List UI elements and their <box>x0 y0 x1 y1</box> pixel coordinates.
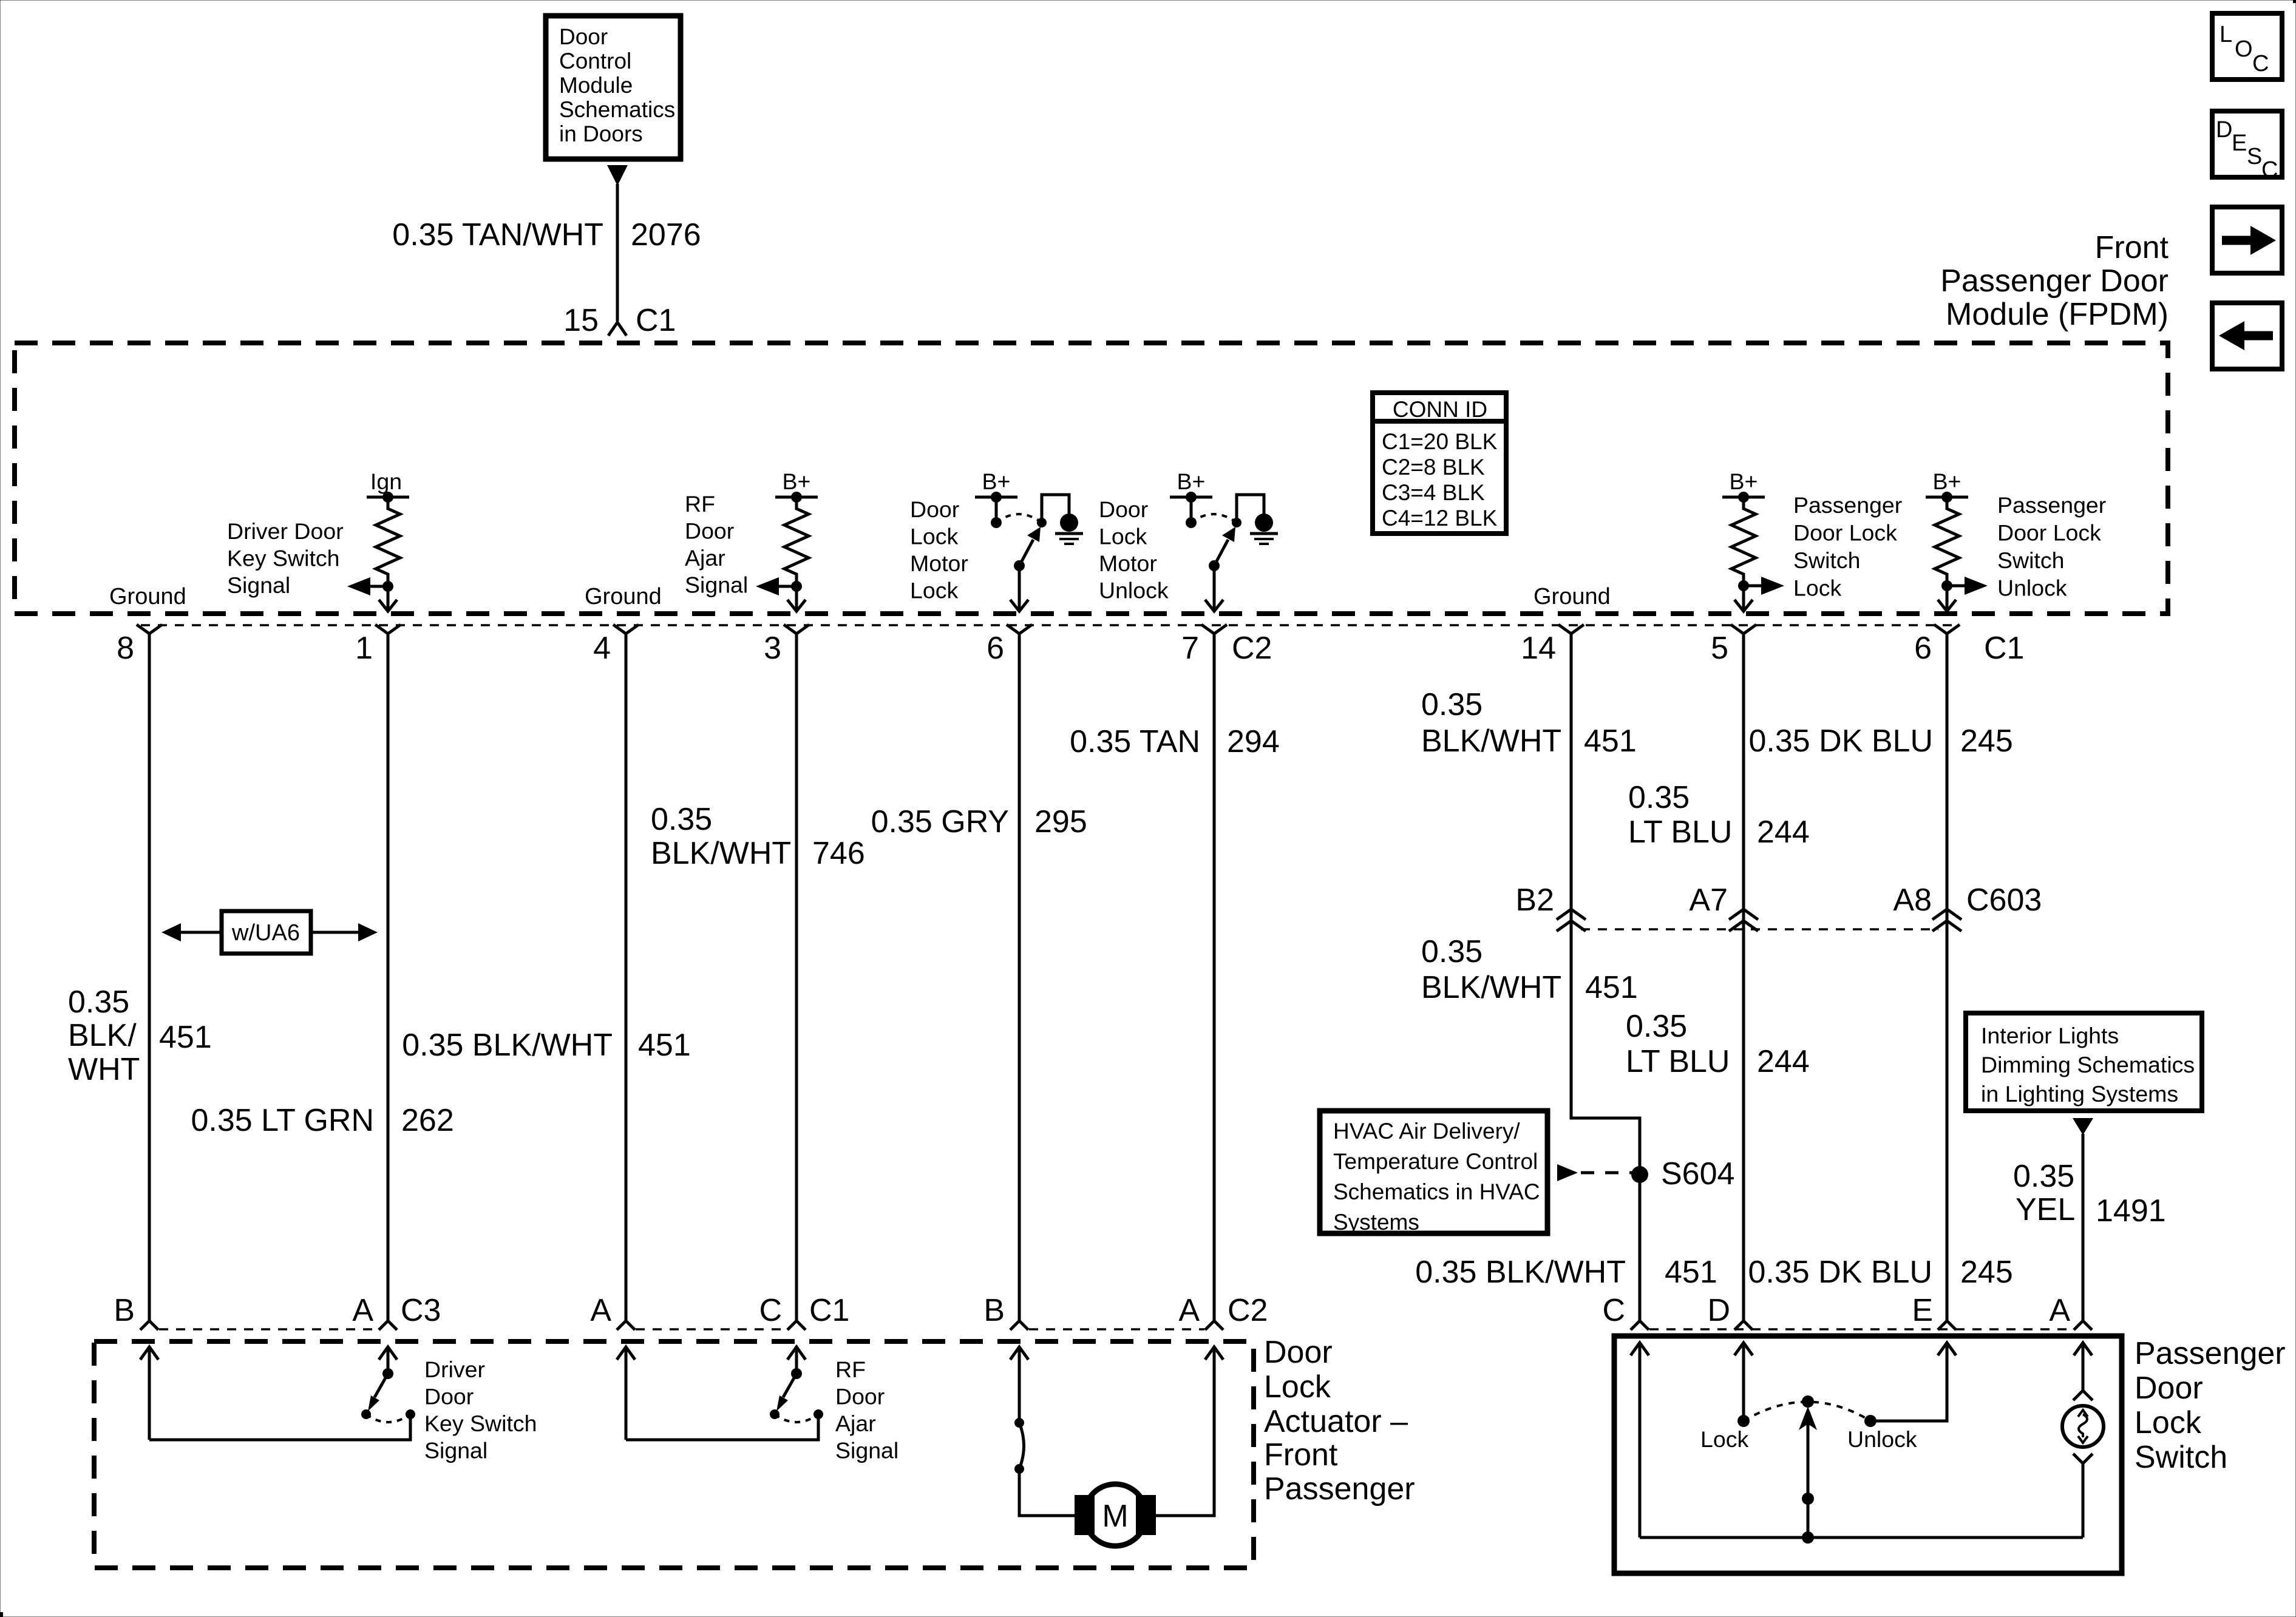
connector C603 dashed line <box>1581 928 1938 931</box>
connector Y at pin 4 <box>613 625 639 634</box>
svg-text:C: C <box>2261 157 2278 183</box>
left-arrow button box <box>2212 303 2282 369</box>
wire: R1 to pin 1 with down arrow <box>379 586 397 611</box>
wire arrow into actuator pin A C2 <box>1205 1347 1223 1360</box>
wire: ground contact to chassis ground (unlock driver) <box>1237 495 1264 523</box>
svg-text:C: C <box>1602 1293 1625 1328</box>
signal tap arrow (unlock switch signal) <box>1947 577 1988 595</box>
switch S3 blade with arrowhead <box>368 1374 388 1411</box>
svg-text:DoorLockActuator –FrontPasseng: DoorLockActuator –FrontPassenger <box>1264 1335 1415 1507</box>
wire: pin 3 circuit 746 down to actuator pin C C1 <box>795 634 798 1321</box>
svg-text:244: 244 <box>1757 815 1810 850</box>
wire: lamp to rail <box>2082 1463 2085 1537</box>
svg-text:1: 1 <box>355 631 373 666</box>
svg-text:E: E <box>1912 1293 1933 1328</box>
switch S2 blade with arrowhead <box>1214 527 1235 566</box>
svg-text:0.35 TAN: 0.35 TAN <box>1070 724 1200 759</box>
svg-text:0.35BLK/WHT: 0.35BLK/WHT <box>68 985 140 1087</box>
page corner mark bottom-left <box>0 1612 3 1617</box>
connector chevron above lamp <box>2073 1391 2093 1400</box>
svg-text:15: 15 <box>563 303 599 338</box>
svg-text:E: E <box>2232 131 2247 156</box>
wire: pin 1 circuit 262 down to actuator pin A C3 <box>387 634 390 1321</box>
switch S1 blade with arrowhead <box>1019 527 1041 566</box>
signal tap arrow (RF door ajar signal) <box>756 577 796 595</box>
connector Y at pin 6 C2 <box>1007 625 1032 634</box>
B+ supply bar (lock driver) <box>975 496 1017 499</box>
dashed throw arc (S4) <box>775 1414 818 1422</box>
svg-text:6: 6 <box>1914 631 1932 666</box>
wire: circuit 1491 down to switch pin A <box>2082 1134 2085 1321</box>
svg-text:8: 8 <box>117 631 134 666</box>
junction dot on rail <box>1802 1531 1814 1544</box>
B+ supply bar (unlock switch) <box>1926 496 1968 499</box>
svg-text:D: D <box>2216 117 2232 143</box>
illumination lamp <box>2062 1406 2104 1447</box>
svg-text:B+: B+ <box>982 469 1011 494</box>
box: Interior Lights Dimming reference <box>1966 1013 2202 1111</box>
junction dot below R1 <box>382 581 393 592</box>
connector chevron at actuator pin A C3 <box>379 1321 397 1330</box>
contact dot ground side (lock driver) <box>1037 518 1047 527</box>
svg-text:PassengerDoor LockSwitchUnlock: PassengerDoor LockSwitchUnlock <box>1997 492 2106 601</box>
wire arrow into switch pin A <box>2074 1343 2092 1390</box>
svg-text:1491: 1491 <box>2096 1193 2166 1229</box>
svg-text:244: 244 <box>1757 1044 1810 1079</box>
connector chevron at pin 15 <box>608 322 627 336</box>
arrow from HVAC box <box>1557 1164 1578 1181</box>
svg-text:451: 451 <box>638 1028 691 1063</box>
wire: Unlock contact to pin E <box>1870 1343 1947 1421</box>
connector Y at pin 6 C1 <box>1934 625 1960 634</box>
rocker center dot <box>1802 1395 1814 1408</box>
wire: pin 6 circuit 245 down through C603 A8 to switch pin E <box>1946 634 1949 1321</box>
switch common pole arrow <box>1799 1406 1817 1499</box>
motor switch contact dot upper <box>1014 1418 1024 1428</box>
svg-text:0.35 BLK/WHT: 0.35 BLK/WHT <box>1415 1255 1626 1290</box>
wire arrow into switch pin C <box>1631 1343 1649 1537</box>
svg-text:Unlock: Unlock <box>1847 1426 1917 1452</box>
svg-text:0.35 DK BLU: 0.35 DK BLU <box>1749 724 1934 759</box>
connector chevrons at A7 <box>1729 909 1758 931</box>
switch S1 pivot dot (lock driver) <box>1014 560 1025 571</box>
connector dashed line (actuator C1) <box>636 1328 787 1331</box>
CONN ID table box <box>1373 393 1506 534</box>
connector chevron at switch pin D <box>1734 1321 1753 1330</box>
svg-text:451: 451 <box>1665 1255 1717 1290</box>
arrow: from reference box down <box>607 165 628 186</box>
svg-text:L: L <box>2220 22 2232 47</box>
svg-text:PassengerDoor LockSwitchLock: PassengerDoor LockSwitchLock <box>1793 492 1902 601</box>
switch S4 pivot dot (RF door ajar switch) <box>791 1368 802 1379</box>
wire: pin 4 circuit 451 down to actuator pin A <box>625 634 628 1321</box>
connector chevron at switch pin E <box>1938 1321 1956 1330</box>
wire arrow into switch pin D <box>1734 1343 1753 1421</box>
box: HVAC Air Delivery reference <box>1320 1111 1547 1233</box>
junction dot on B+ bar (unlock switch) <box>1941 492 1952 503</box>
svg-text:3: 3 <box>764 631 781 666</box>
contact dot right (S3) <box>406 1409 415 1419</box>
junction dot on Ign bar <box>382 492 393 503</box>
connector Y at pin 14 <box>1558 625 1584 634</box>
svg-text:Ign: Ign <box>370 469 402 494</box>
connector Y at pin 8 <box>137 625 162 634</box>
contact dot ground side (unlock driver) <box>1232 518 1241 527</box>
contact dot B+ side (lock driver) <box>991 517 1002 528</box>
switch S2 pivot dot (unlock driver) <box>1209 560 1220 571</box>
FPDM module dashed box <box>15 343 2168 614</box>
connector dashed line (actuator C3) <box>159 1328 378 1331</box>
svg-text:0.35LT BLU: 0.35LT BLU <box>1626 1009 1730 1079</box>
dashed throw arc (lock driver switch) <box>996 514 1042 523</box>
wire: pin 6 circuit 295 down to actuator pin B C2 <box>1018 634 1021 1321</box>
connector chevron at actuator pin B C2 <box>1010 1321 1028 1330</box>
connector chevron below lamp <box>2073 1454 2093 1463</box>
wire: pin 8 circuit 451 down to actuator pin B <box>148 634 151 1321</box>
ground symbol (lock driver) <box>1055 514 1083 544</box>
connector chevron at actuator pin A C1 <box>617 1321 635 1330</box>
wire: pin 7 circuit 294 down to actuator pin A C2 <box>1213 634 1216 1321</box>
junction dot on pole <box>1802 1493 1814 1505</box>
svg-text:7: 7 <box>1181 631 1199 666</box>
wire: actuator key switch return rail <box>149 1415 410 1440</box>
wire: pole to rail <box>1807 1499 1810 1537</box>
svg-text:0.35BLK/WHT: 0.35BLK/WHT <box>1421 687 1561 759</box>
stub wire B+ to contact <box>995 497 998 523</box>
wire: pin 5 circuit 244 down through C603 A7 to switch pin D <box>1742 634 1745 1321</box>
connector Y at pin 1 <box>375 625 401 634</box>
svg-text:DoorLockMotorLock: DoorLockMotorLock <box>910 497 968 603</box>
svg-text:0.35 BLK/WHT: 0.35 BLK/WHT <box>402 1028 613 1063</box>
signal tap arrow (driver door key switch signal) <box>347 577 388 595</box>
svg-text:Ground: Ground <box>1533 584 1611 609</box>
svg-text:Ground: Ground <box>109 584 186 609</box>
wire arrow into actuator pin B C2 <box>1010 1347 1028 1423</box>
junction dot on B+ bar (unlock driver) <box>1186 492 1197 503</box>
svg-text:C3: C3 <box>401 1293 441 1328</box>
svg-text:CONN ID: CONN ID <box>1393 397 1487 422</box>
wire arrow into switch pin E <box>1938 1343 1956 1355</box>
svg-text:C1: C1 <box>809 1293 849 1328</box>
svg-text:A7: A7 <box>1689 883 1728 918</box>
junction dot on B+ bar (RF) <box>791 492 802 503</box>
svg-text:Interior LightsDimming Schemat: Interior LightsDimming Schematicsin Ligh… <box>1981 1023 2195 1107</box>
svg-text:A: A <box>1178 1293 1200 1328</box>
w/UA6 right arrow <box>311 923 378 941</box>
svg-text:B2: B2 <box>1515 883 1554 918</box>
wire: pin 14 circuit 451 down through C603 B2 then jog to S604 <box>1571 634 1640 1321</box>
switch S4 blade with arrowhead <box>776 1374 796 1411</box>
rocker dashed arc <box>1744 1402 1870 1422</box>
connector Y at pin 5 <box>1731 625 1756 634</box>
svg-text:5: 5 <box>1711 631 1728 666</box>
connector Y at pin 3 <box>784 625 809 634</box>
svg-text:B+: B+ <box>1933 469 1961 494</box>
svg-text:0.35 LT GRN: 0.35 LT GRN <box>191 1103 374 1138</box>
svg-text:DriverDoorKey SwitchSignal: DriverDoorKey SwitchSignal <box>424 1357 537 1463</box>
Door Lock Actuator dashed box <box>94 1341 1254 1568</box>
w/UA6 option box <box>222 911 311 954</box>
svg-text:0.35BLK/WHT: 0.35BLK/WHT <box>651 802 791 871</box>
resistor R2 (RF door ajar pull-up) <box>784 497 809 586</box>
svg-text:245: 245 <box>1960 1255 2013 1290</box>
splice S604 dot <box>1631 1166 1648 1183</box>
svg-text:A8: A8 <box>1893 883 1932 918</box>
contact dot left (S4) <box>770 1409 779 1419</box>
svg-text:PassengerDoorLockSwitch: PassengerDoorLockSwitch <box>2135 1336 2286 1475</box>
contact dot Unlock <box>1864 1415 1877 1427</box>
svg-text:C603: C603 <box>1966 883 2042 918</box>
contact dot Lock <box>1737 1415 1750 1427</box>
svg-text:0.35 GRY: 0.35 GRY <box>871 804 1009 839</box>
B+ supply bar (RF) <box>775 496 818 499</box>
svg-text:RFDoorAjarSignal: RFDoorAjarSignal <box>835 1357 898 1463</box>
Ign supply bar <box>367 496 409 499</box>
svg-text:A: A <box>352 1293 373 1328</box>
svg-text:245: 245 <box>1960 724 2013 759</box>
svg-text:0.35LT BLU: 0.35LT BLU <box>1628 780 1733 850</box>
svg-text:C1=20 BLKC2=8 BLKC3=4 BLKC4=12: C1=20 BLKC2=8 BLKC3=4 BLKC4=12 BLK <box>1382 429 1498 531</box>
svg-text:0.35BLK/WHT: 0.35BLK/WHT <box>1421 934 1561 1005</box>
junction dot on B+ bar (lock switch) <box>1738 492 1749 503</box>
svg-text:M: M <box>1102 1499 1128 1534</box>
resistor R4 (passenger door lock switch unlock pull-up) <box>1935 497 1959 586</box>
svg-text:295: 295 <box>1034 804 1087 839</box>
svg-text:C1: C1 <box>1984 631 2024 666</box>
switch S3 pivot dot (driver door key switch) <box>382 1368 393 1379</box>
wire: actuator ajar switch return rail <box>626 1415 818 1440</box>
svg-text:0.35YEL: 0.35YEL <box>2013 1159 2075 1227</box>
svg-text:C1: C1 <box>636 303 676 338</box>
w/UA6 left arrow <box>161 923 222 941</box>
svg-text:B+: B+ <box>1177 469 1206 494</box>
svg-text:451: 451 <box>159 1020 212 1055</box>
svg-text:0.35 DK BLU: 0.35 DK BLU <box>1748 1255 1933 1290</box>
connector chevrons at B2 <box>1557 909 1586 931</box>
resistor R3 (passenger door lock switch lock pull-up) <box>1731 497 1756 586</box>
connector chevron at actuator pin B <box>140 1321 158 1330</box>
svg-text:451: 451 <box>1584 724 1637 759</box>
svg-text:0.35 TAN/WHT: 0.35 TAN/WHT <box>392 217 603 253</box>
signal tap arrow (lock switch signal) <box>1744 577 1784 595</box>
wire: circuit 2076 to FPDM pin 15 <box>616 184 619 321</box>
junction dot below R4 <box>1941 580 1952 591</box>
svg-text:DoorLockMotorUnlock: DoorLockMotorUnlock <box>1099 497 1169 603</box>
svg-text:S: S <box>2247 144 2262 169</box>
resistor R1 (driver door key switch pull-up) <box>376 497 400 586</box>
wire: R4 to pin 6 C1 with down arrow <box>1938 586 1956 611</box>
B+ supply bar (lock switch) <box>1722 496 1765 499</box>
connector dashed line (switch) <box>1649 1328 2073 1331</box>
svg-text:w/UA6: w/UA6 <box>231 920 300 946</box>
wire: switch to motor M1 <box>1019 1469 1078 1516</box>
motor switch contact dot lower <box>1014 1464 1024 1474</box>
svg-text:C: C <box>759 1293 782 1328</box>
wire arrow into actuator pin A C1 <box>617 1347 635 1440</box>
svg-text:B: B <box>983 1293 1005 1328</box>
wire: ground contact to chassis ground (lock driver) <box>1042 495 1069 523</box>
svg-text:D: D <box>1707 1293 1730 1328</box>
svg-text:O: O <box>2235 36 2253 62</box>
wire: R2 to pin 3 with down arrow <box>787 586 806 611</box>
svg-text:A: A <box>2049 1293 2070 1328</box>
stub wire B+ to contact (unlock) <box>1190 497 1193 523</box>
svg-text:A: A <box>590 1293 611 1328</box>
dashed wire to S604 <box>1581 1171 1636 1175</box>
wire: motor M1 to pin A C2 <box>1152 1347 1214 1516</box>
svg-text:14: 14 <box>1521 631 1556 666</box>
page corner mark top-right <box>2293 0 2296 3</box>
ground symbol (unlock driver) <box>1250 514 1278 544</box>
contact dot right (S4) <box>813 1409 823 1419</box>
connector dashed line (actuator C2) <box>1029 1328 1204 1331</box>
svg-text:B: B <box>114 1293 135 1328</box>
contact dot left (S3) <box>361 1409 371 1419</box>
connector chevrons at A8 <box>1932 909 1961 931</box>
svg-text:S604: S604 <box>1661 1156 1734 1192</box>
svg-text:Driver DoorKey SwitchSignal: Driver DoorKey SwitchSignal <box>227 518 344 598</box>
B+ supply bar (unlock driver) <box>1170 496 1212 499</box>
connector chevron at switch pin A <box>2074 1321 2092 1330</box>
junction dot below R2 <box>791 581 802 592</box>
svg-text:Ground: Ground <box>585 584 662 609</box>
wire: S2 to pin 7 with down arrow <box>1205 566 1223 611</box>
svg-text:Lock: Lock <box>1700 1426 1748 1452</box>
arrow from Interior Lights box <box>2073 1118 2093 1135</box>
contact dot B+ side (unlock driver) <box>1186 517 1197 528</box>
wire: R3 to pin 5 with down arrow <box>1734 586 1753 611</box>
svg-text:DoorControlModuleSchematicsin: DoorControlModuleSchematicsin Doors <box>559 24 675 146</box>
connector chevron at actuator pin C C1 <box>787 1321 806 1330</box>
dashed throw arc (unlock driver switch) <box>1191 514 1237 523</box>
wire arrow into actuator pin C C1 <box>787 1347 806 1377</box>
connector dashed line below FPDM <box>141 624 1956 626</box>
svg-text:B+: B+ <box>783 469 811 494</box>
svg-text:C2: C2 <box>1228 1293 1268 1328</box>
svg-text:746: 746 <box>812 836 865 871</box>
right-arrow button box <box>2212 207 2282 273</box>
DESC button box <box>2212 111 2282 183</box>
dashed throw arc (S3) <box>366 1414 410 1422</box>
svg-text:294: 294 <box>1227 724 1280 759</box>
wire arrow into actuator pin B <box>140 1347 158 1440</box>
svg-text:FrontPassenger DoorModule (FPD: FrontPassenger DoorModule (FPDM) <box>1940 230 2169 332</box>
motor switch arc <box>1019 1423 1024 1469</box>
wire: switch common rail <box>1640 1536 2083 1539</box>
svg-text:2076: 2076 <box>631 217 701 253</box>
svg-text:262: 262 <box>401 1103 454 1138</box>
LOC button box <box>2212 13 2282 80</box>
svg-text:B+: B+ <box>1730 469 1758 494</box>
svg-text:C2: C2 <box>1232 631 1272 666</box>
svg-text:RFDoorAjarSignal: RFDoorAjarSignal <box>685 491 748 598</box>
connector Y at pin 7 C2 <box>1201 625 1227 634</box>
wire: S1 to pin 6 with down arrow <box>1010 566 1028 611</box>
connector chevron at actuator pin A C2 <box>1205 1321 1223 1330</box>
wire arrow into actuator pin A C3 <box>379 1347 397 1377</box>
junction dot below R3 <box>1738 580 1749 591</box>
motor M1 (door lock motor) <box>1075 1484 1156 1546</box>
svg-text:HVAC Air Delivery/Temperature: HVAC Air Delivery/Temperature ControlSch… <box>1333 1119 1540 1235</box>
svg-text:C: C <box>2252 51 2269 76</box>
svg-text:4: 4 <box>593 631 611 666</box>
svg-text:451: 451 <box>1585 970 1638 1005</box>
box: Door Control Module Schematics reference <box>546 16 681 159</box>
Passenger Door Lock Switch box <box>1614 1336 2122 1573</box>
svg-text:6: 6 <box>987 631 1004 666</box>
connector chevron at switch pin C <box>1631 1321 1649 1330</box>
junction dot on B+ bar (lock driver) <box>991 492 1002 503</box>
